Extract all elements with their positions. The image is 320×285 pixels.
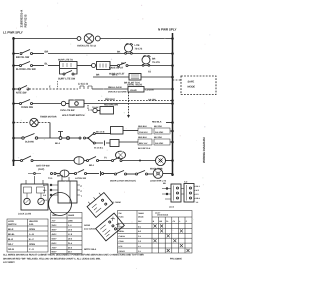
svg-text:450 F: 450 F [52,233,58,236]
svg-text:LOC BRKT.: LOC BRKT. [3,261,15,264]
svg-text:BAKE INPUT: BAKE INPUT [109,67,124,70]
svg-text:B-2: B-2 [138,230,141,233]
door latch diamond 2 [96,213,125,241]
oven lite sw lamp [61,101,65,105]
svg-text:P: P [81,185,83,188]
svg-text:BK: BK [121,62,125,65]
svg-text:BR: BR [159,220,162,223]
wire dashed door linkage [98,100,173,102]
wire N bus [172,33,174,176]
lock/unlock table [7,219,48,252]
connector block B [184,184,194,203]
switch oven [20,103,22,105]
svg-text:N PWR SPLY: N PWR SPLY [158,28,177,32]
svg-text:HOLD TEMP SWITCH: HOLD TEMP SWITCH [62,114,85,117]
outlet [92,64,96,68]
svg-text:ALL WIRES SHOWN AS RUN AT CABI: ALL WIRES SHOWN AS RUN AT CABINET REAR. … [3,254,144,257]
svg-text:SAFE: SAFE [188,80,195,83]
svg-text:BR-1: BR-1 [112,74,118,77]
svg-text:TIMER: TIMER [138,212,144,215]
junction dots L1 bus [12,37,15,162]
svg-text:TA: TA [148,71,151,74]
svg-text:LOCK L14-B: LOCK L14-B [18,212,31,215]
wire L1 bus [13,37,15,166]
broil element box [129,74,141,81]
wire rung 4 broil element [93,76,129,78]
timer motor [30,118,38,126]
svg-text:RED BLK: RED BLK [138,136,147,139]
svg-text:BRL VLV: BRL VLV [139,142,148,145]
svg-text:PROOF: PROOF [119,250,126,253]
svg-text:L-1: L-1 [138,245,141,248]
svg-text:(L-3) (L-2): (L-3) (L-2) [78,83,88,86]
door latch diamond 1 [85,190,113,217]
svg-text:BK 4-5-B: BK 4-5-B [96,131,105,134]
svg-text:P: P [186,220,188,223]
svg-text:ANTI-TIP SW: ANTI-TIP SW [36,165,50,168]
lock motor [153,169,163,179]
wire rung 9 clock [14,160,21,162]
svg-text:CV: CV [173,220,176,223]
connector pin labels [196,185,201,204]
svg-text:P/N 316905: P/N 316905 [170,257,183,260]
svg-text:TV-1: TV-1 [48,177,53,180]
svg-text:LATCH SW: LATCH SW [75,177,87,180]
switch anti-tip [21,160,23,162]
svg-text:75 F: 75 F [52,220,57,223]
svg-text:VALVE: VALVE [130,89,137,92]
svg-text:UNLOCK: UNLOCK [29,220,39,223]
svg-text:C-2: C-2 [138,240,141,243]
hold temp switch [88,105,93,110]
fine print [3,254,183,265]
svg-text:BR-1: BR-1 [89,164,95,167]
svg-text:OHMS: OHMS [68,214,75,217]
oven motor oval [74,157,84,165]
node split [87,137,89,139]
svg-text:FLOOR LITE SW: FLOOR LITE SW [16,68,36,71]
svg-text:750 F: 750 F [52,247,58,250]
wire rung 10 lock motor [51,173,53,175]
svg-text:DLB SW: DLB SW [25,141,35,144]
switch broil [20,53,22,55]
svg-text:550 F: 550 F [52,238,58,241]
switch floor lite [20,65,22,67]
part number (rotated, top-left margin) [20,9,28,28]
svg-text:E: E [49,86,51,89]
svg-text:BK-1: BK-1 [196,185,200,188]
switch conv [87,160,89,162]
svg-text:SURF LITE SW: SURF LITE SW [58,78,76,81]
svg-text:A-2: A-2 [184,181,188,184]
svg-text:(FLIP): (FLIP) [38,168,44,171]
scan noise speckles (decorative) [7,3,210,270]
svg-text:CONV: CONV [119,240,125,243]
svg-text:NITE SW: NITE SW [16,92,27,95]
svg-text:BR OIL SW: BR OIL SW [16,56,30,59]
svg-text:C - D: C - D [29,248,34,251]
svg-text:CL: CL [166,220,169,223]
svg-text:SMALL GA-W: SMALL GA-W [108,86,123,89]
svg-text:A - B: A - B [29,233,34,236]
switch fan [112,160,114,162]
control boxes column [111,127,124,135]
sensor probe assembly [58,181,77,203]
surf lite switch branch [60,69,78,74]
svg-text:GR-Y: GR-Y [8,243,14,246]
svg-text:BL-R: BL-R [8,238,13,241]
svg-text:BK-R: BK-R [8,228,14,231]
svg-text:S.W.: S.W. [29,223,34,226]
svg-text:C: C [81,190,83,193]
relay block row A [123,130,138,132]
svg-text:Y-2: Y-2 [44,199,47,202]
svg-text:W-5: W-5 [43,189,46,192]
fuse [62,137,66,139]
wire rung 2 [14,53,20,55]
stub label on N bus [166,122,173,124]
svg-text:RED BLK: RED BLK [152,120,162,123]
coil oven lite [125,44,133,52]
connector block A [171,184,181,202]
wire rung 6 oven [14,103,20,105]
svg-text:OVN VLV: OVN VLV [139,131,148,134]
svg-text:WIRING DIAGRAM: WIRING DIAGRAM [202,137,206,163]
svg-text:BL: BL [45,63,49,66]
svg-text:(xxx switch): (xxx switch) [84,228,96,231]
svg-text:25-7: 25-7 [68,251,73,254]
svg-text:RED BLK: RED BLK [138,125,147,128]
svg-text:BK-BL: BK-BL [8,233,15,236]
switch dlb [22,137,24,139]
svg-text:650 F: 650 F [52,242,58,245]
svg-text:LOCK: LOCK [8,220,14,223]
svg-text:BR: BR [96,74,100,77]
sensor resistance table [51,213,83,254]
svg-text:BK 125F CLN: BK 125F CLN [138,147,151,150]
lock relay box [21,184,48,210]
svg-text:MODE: MODE [138,216,144,219]
safe mode dashed box [173,79,182,81]
svg-text:L: L [179,220,181,223]
svg-text:REV 02 B: REV 02 B [24,14,28,28]
svg-text:CLEAN: CLEAN [119,235,126,238]
svg-text:23-5: 23-5 [68,247,73,250]
contact [118,65,120,67]
switch door latch [115,173,117,175]
svg-text:7S-17S: 7S-17S [152,61,160,64]
svg-text:GA-125F: GA-125F [155,131,164,134]
svg-text:BAKE: BAKE [119,225,125,228]
svg-text:21-4: 21-4 [68,242,73,245]
switch nite [19,88,21,90]
dashed link below valve [128,92,130,115]
svg-text:R-3: R-3 [196,193,199,196]
svg-text:B: B [153,220,155,223]
svg-text:T: T [81,195,83,198]
svg-text:250 F: 250 F [52,224,58,227]
svg-text:1080: 1080 [68,220,73,223]
svg-text:BK 125F: BK 125F [154,136,163,139]
coil tv [142,56,150,64]
svg-text:RED BROWN: RED BROWN [104,104,118,107]
svg-text:350 F: 350 F [52,229,58,232]
svg-text:DOOR: DOOR [84,224,91,227]
svg-text:B - C: B - C [29,238,34,241]
junction dots N bus [171,37,174,176]
svg-text:GA-5W: GA-5W [148,99,157,102]
latch motor oval [60,170,69,177]
svg-text:W-2: W-2 [196,189,199,192]
svg-text:BK 125F: BK 125F [154,125,163,128]
svg-text:OPEN: OPEN [29,228,35,231]
svg-text:RED BLK: RED BLK [105,98,115,101]
svg-text:TEMP: TEMP [52,214,58,217]
svg-text:1- 4: 1- 4 [68,224,72,227]
relay block row B [119,141,138,143]
svg-text:NOTE 316-A: NOTE 316-A [84,248,97,251]
svg-text:B-1: B-1 [138,225,141,228]
svg-text:OVEN LITE 7S-12: OVEN LITE 7S-12 [77,44,97,47]
wire rung 5 valve [14,88,19,90]
svg-text:900 F: 900 F [52,251,58,254]
svg-text:BK-3: BK-3 [43,184,47,187]
svg-text:W 4-5-B-1: W 4-5-B-1 [94,147,104,150]
svg-text:P-1: P-1 [138,250,141,253]
svg-text:OVN LITE SW: OVN LITE SW [60,109,75,112]
svg-text:GR-W: GR-W [8,248,15,251]
svg-text:15-6: 15-6 [68,229,73,232]
svg-text:BK W: BK W [57,175,64,178]
svg-text:MODE: MODE [188,85,196,88]
terminals L3 L2 [80,86,92,89]
terminal post [59,137,62,140]
svg-text:TV: TV [104,157,107,160]
wire rung 8 bake circuit [14,137,22,139]
svg-text:SWITCH: SWITCH [8,223,17,226]
svg-text:DOOR LATCH SW (TACH): DOOR LATCH SW (TACH) [110,180,136,183]
wire latch links [28,173,41,175]
svg-text:19-2: 19-2 [68,238,73,241]
svg-text:BK-2: BK-2 [55,142,61,145]
svg-text:L1 PWR SPLY: L1 PWR SPLY [3,31,24,35]
svg-text:L1 TERM: L1 TERM [112,201,121,204]
function chart table [118,211,193,254]
wire rung 7 timer motor (dashed) [14,122,30,124]
svg-text:OPEN: OPEN [29,243,35,246]
svg-text:GA-125F: GA-125F [155,142,164,145]
svg-text:TIMER MOTOR: TIMER MOTOR [40,116,57,119]
svg-text:BK: BK [117,51,121,54]
wire rung 3 [14,65,20,67]
svg-text:Y-5: Y-5 [196,201,199,204]
mode timer motor [156,156,166,166]
svg-text:7S-17S: 7S-17S [135,48,143,51]
switch latch [75,173,77,175]
svg-text:L14-2: L14-2 [169,206,175,209]
svg-text:BROIL: BROIL [119,230,126,233]
svg-text:C-1: C-1 [138,235,141,238]
svg-text:OVEN MODE: OVEN MODE [157,214,169,217]
svg-text:FUNC: FUNC [119,216,125,219]
svg-text:BR-4: BR-4 [196,197,201,200]
svg-text:SHOWN W/ RED "BR" RELAXED. YE: SHOWN W/ RED "BR" RELAXED. YELLOW. OM BE… [3,257,101,260]
svg-text:R-6: R-6 [43,194,46,197]
wire rung 1 [14,38,78,40]
svg-text:LITE: LITE [119,245,124,248]
svg-text:RLY: RLY [138,220,142,223]
svg-text:SW: SW [119,212,122,215]
lamp oven light [77,37,81,41]
svg-text:OVEN SW: OVEN SW [21,106,34,109]
svg-text:OVN VLV GA-GRN: OVN VLV GA-GRN [108,91,127,94]
svg-text:CNTRL VALVE: CNTRL VALVE [127,84,143,87]
svg-text:BR: BR [45,51,49,54]
svg-text:TD-4W: TD-4W [92,106,98,109]
svg-text:17-8: 17-8 [68,233,73,236]
